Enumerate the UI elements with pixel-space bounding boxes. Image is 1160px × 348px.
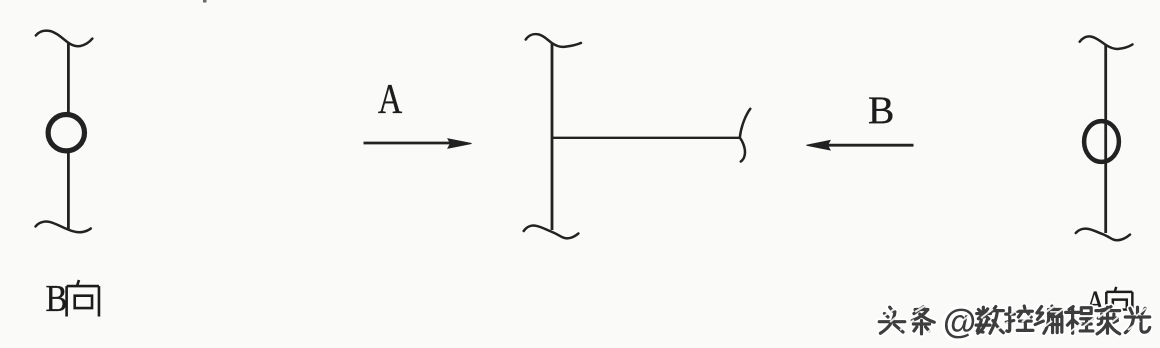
watermark fragment slashes [884, 304, 1146, 334]
view arrow B line [828, 144, 914, 147]
view arrow A head [448, 139, 472, 148]
right view symbol: centerline through circle [1104, 45, 1107, 233]
view arrow B head [807, 141, 831, 150]
right view symbol: top break line [1080, 36, 1133, 49]
view arrow A line [364, 142, 451, 145]
middle figure: top break line [526, 34, 581, 47]
middle figure: centerline [551, 43, 554, 230]
watermark white outline pass [879, 306, 1149, 334]
middle figure: horizontal line [552, 137, 740, 139]
left view symbol: top break line [36, 31, 93, 47]
watermark gray pass [879, 306, 1149, 334]
right view symbol: circle [1084, 121, 1119, 162]
right view symbol: bottom break line [1076, 229, 1130, 241]
svg-text:B: B [46, 277, 68, 320]
svg-text:A: A [378, 77, 403, 123]
svg-text:B: B [868, 88, 894, 132]
middle figure: right break S-curve [740, 109, 751, 162]
left view symbol: bottom break line [36, 222, 91, 233]
left view symbol: lower centerline [67, 152, 70, 231]
left view symbol: upper centerline [67, 43, 70, 113]
scan speck top edge [203, 0, 207, 3]
label A-view: xiang character [1106, 287, 1132, 316]
middle figure: bottom break line [524, 226, 579, 239]
left view symbol: circle [48, 115, 84, 151]
label B-view: xiang character [67, 280, 99, 317]
